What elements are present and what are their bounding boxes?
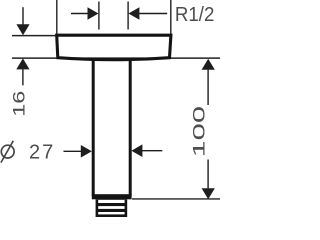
extension line 16 top <box>12 35 57 37</box>
dimension 16 bottom arrowhead (up) <box>16 58 29 69</box>
label diameter 27 <box>1 145 14 158</box>
extension line right disc edge <box>170 0 172 34</box>
escutcheon disc outline <box>57 35 171 60</box>
svg-text:16: 16 <box>9 91 28 117</box>
thread white gap 3 <box>98 212 124 214</box>
dimension 27 left arrow tail <box>64 150 82 152</box>
dimension 27 right arrow tail <box>142 150 162 152</box>
dimension 100 top arrowhead (up) <box>202 59 215 70</box>
arrowhead R1/2 right <box>128 7 139 20</box>
extension line 100 bottom <box>132 198 220 200</box>
dimension line R1/2 left segment <box>71 13 88 15</box>
extension line 16 bottom / 100 top (full width) <box>12 57 220 59</box>
pipe left edge <box>92 59 95 197</box>
dimension line R1/2 right segment <box>139 13 167 15</box>
dimension 27 left arrowhead (right) <box>81 145 92 158</box>
svg-text:R1/2: R1/2 <box>175 4 215 26</box>
thread white gap 1 <box>98 200 124 203</box>
thread white gap 2 <box>98 206 124 209</box>
dimension 27 right arrowhead (left) <box>131 144 142 157</box>
dimension 100 line upper segment <box>207 70 209 105</box>
dimension 16 bottom arrow tail <box>22 69 24 85</box>
extension line thread left <box>98 2 100 30</box>
svg-text:100: 100 <box>190 106 208 158</box>
dimension 100 bottom arrowhead (down) <box>202 188 215 199</box>
diameter symbol slash <box>1 141 13 163</box>
dimension 16 top arrow tail <box>22 7 24 25</box>
pipe right edge <box>129 59 132 197</box>
threaded end block <box>96 199 128 217</box>
extension line thread right <box>127 2 129 30</box>
svg-text:27: 27 <box>29 142 55 164</box>
pipe bottom shoulder bar <box>92 194 132 199</box>
extension line left disc edge <box>56 0 58 34</box>
dimension 100 line lower segment <box>207 160 209 189</box>
dimension 16 top arrowhead (down) <box>16 24 29 35</box>
arrowhead R1/2 left <box>88 7 99 20</box>
